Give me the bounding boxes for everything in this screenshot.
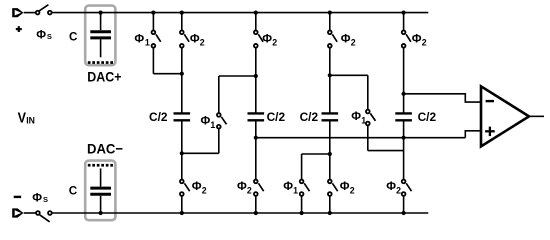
label Phi2 under C3 [340,179,355,195]
label Phi1 top [134,31,150,47]
label VIN [18,111,35,127]
sampling switch PhiS bottom [36,211,52,222]
svg-text:Φ: Φ [262,31,272,45]
svg-text:2: 2 [351,37,356,47]
label C/2 #2 [267,110,286,124]
DAC- dotted continuation [88,164,113,167]
label DAC+ [87,69,121,85]
svg-text:2: 2 [422,37,427,47]
svg-text:C: C [69,184,78,198]
svg-text:DAC+: DAC+ [87,69,121,85]
svg-text:C/2: C/2 [267,110,286,124]
node C3-top jog [328,73,368,113]
svg-text:V: V [18,111,27,127]
op-amp output wire [529,115,544,117]
label Phi2 over C2 [262,31,277,47]
label Phi1 mid-left [201,113,216,130]
svg-text:Φ: Φ [36,28,46,42]
svg-text:Φ: Φ [283,179,293,193]
svg-text:C/2: C/2 [300,110,319,124]
switch Phi2 under C3 [328,180,338,216]
svg-text:Φ: Φ [340,179,350,193]
svg-text:Φ: Φ [201,113,211,127]
svg-text:2: 2 [272,37,277,47]
DAC+ block outline [85,6,115,66]
capacitor C/2 #4 [395,113,412,120]
svg-text:S: S [47,32,52,41]
svg-text:2: 2 [247,186,252,196]
switch Phi2 over C2 [254,11,263,77]
svg-text:Φ: Φ [412,31,422,45]
svg-text:1: 1 [210,120,215,130]
label Phi1 mid-right [351,109,366,126]
svg-text:Φ: Φ [351,109,361,123]
svg-text:2: 2 [202,186,207,196]
svg-text:C: C [69,30,78,44]
label Phi2 over C3 [341,31,356,47]
switch Phi2 over C1 [180,11,189,74]
lower bus wire [254,131,481,140]
input terminal VIN- [12,208,23,217]
svg-text:Φ: Φ [341,31,351,45]
label C/2 #1 [149,110,168,124]
jog C1-bottom to Phi1 [180,151,219,155]
switch Phi2 under C4 [402,180,412,216]
svg-text:Φ: Φ [32,190,42,204]
DAC+ dotted continuation [88,61,113,64]
wire C4 bottom [403,120,405,179]
svg-text:Φ: Φ [386,179,396,193]
label Phi2 over C4 [412,31,427,47]
switch Phi1 top-left [151,11,160,74]
label C/2 #3 [300,110,319,124]
switch Phi2 over C3 [328,11,337,76]
label PhiS top [36,28,52,42]
wire C2 bottom [255,120,257,179]
switch Phi1 mid-left [217,76,227,153]
switch Phi1 mid-right [366,75,376,150]
label C top [69,30,78,44]
label - [14,196,21,198]
svg-text:IN: IN [26,115,35,125]
svg-text:1: 1 [361,115,366,125]
switch Phi2 over C4 [402,11,411,114]
label C bottom [69,184,78,198]
label Phi2 under C4 [386,179,401,195]
svg-text:DAC−: DAC− [87,140,123,156]
wire C1 bottom [181,120,183,179]
svg-text:2: 2 [396,186,401,196]
svg-text:2: 2 [350,186,355,196]
DAC- block outline [85,161,115,221]
DAC- cap C [90,168,111,215]
top rail wire [52,12,428,14]
label DAC- [87,140,123,156]
label Phi1 bottom [283,179,298,195]
joint node over C1 [153,72,184,114]
capacitor C/2 #3 [322,113,339,120]
wire C3 bottom [328,120,332,179]
wire terminal to switch [24,12,36,14]
svg-text:Φ: Φ [190,31,200,45]
svg-text:S: S [43,195,48,204]
svg-text:Φ: Φ [192,179,202,193]
jog Phi1 to C4-bottom [368,150,404,152]
svg-text:1: 1 [293,186,298,196]
label Phi2 under C2 [237,179,252,195]
wire terminal to switch bottom [24,212,36,214]
capacitor C/2 #1 [174,113,191,120]
svg-text:Φ: Φ [134,31,144,45]
op-amp comparator [481,86,529,146]
bottom rail wire [52,212,428,214]
svg-text:C/2: C/2 [418,110,437,124]
svg-text:C/2: C/2 [149,110,168,124]
label PhiS bottom [32,190,48,204]
jog C3-bottom pair [302,154,330,179]
svg-text:Φ: Φ [237,179,247,193]
capacitor C/2 #2 [248,113,265,120]
node C4-top to op-amp [402,92,481,102]
label C/2 #4 [418,110,437,124]
label + [16,26,22,32]
DAC+ cap C [90,11,111,58]
label Phi2 over C1 [190,31,205,47]
svg-text:2: 2 [200,37,205,47]
label Phi2 under C1 [192,179,207,195]
switch Phi2 under C1 [180,180,190,216]
switch Phi1 bottom pair [300,180,310,216]
node C2-top jog [219,74,258,114]
switch Phi2 under C2 [254,180,264,216]
input terminal VIN+ [12,8,23,17]
sampling switch PhiS top [36,5,52,15]
svg-text:1: 1 [145,37,150,47]
